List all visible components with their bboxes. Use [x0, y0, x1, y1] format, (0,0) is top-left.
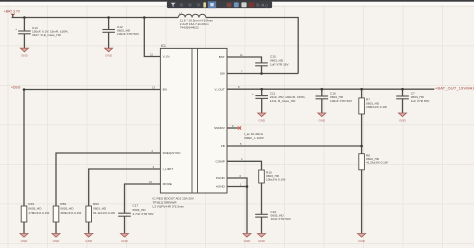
- capacitor C12: [102, 30, 115, 33]
- svg-text:41.2k±1% 0.1W: 41.2k±1% 0.1W: [366, 161, 388, 165]
- junction C12 tap: [107, 16, 110, 19]
- svg-text:100nF X7R 50V: 100nF X7R 50V: [330, 99, 353, 103]
- ground GND (C7): [399, 113, 407, 122]
- inductor L1: [178, 12, 206, 18]
- toolbar maroon icon: [227, 3, 232, 8]
- svg-text:178k±1% 0.1W: 178k±1% 0.1W: [28, 211, 49, 215]
- wire SW pin to corner: [227, 73, 298, 75]
- ground GND (C16): [318, 113, 326, 122]
- wire COMP net: [227, 161, 262, 170]
- toolbar light window icon: [241, 2, 246, 7]
- junction +DSG corner: [23, 88, 26, 91]
- capacitor C10: [255, 214, 268, 217]
- ground GND (R64): [85, 234, 93, 243]
- svg-text:SW: SW: [220, 72, 225, 76]
- svg-text:A: A: [261, 3, 264, 8]
- svg-text:+BAT_OUT_19VMAX: +BAT_OUT_19VMAX: [435, 86, 474, 90]
- resistor R8: [359, 154, 365, 170]
- label L1 values: [180, 19, 214, 30]
- resistor R10: [259, 170, 265, 183]
- IC pin numbers: [149, 53, 243, 187]
- label R7: [366, 98, 387, 109]
- resistor R7: [359, 98, 365, 114]
- ground GND (C10): [258, 234, 266, 243]
- label R10: [266, 170, 285, 181]
- svg-text:3917, D,E_Case_HD: 3917, D,E_Case_HD: [32, 33, 62, 37]
- wire +BAT top rail: [12, 14, 179, 18]
- junction V_IN tap: [143, 16, 146, 19]
- resistor R19: [21, 206, 27, 222]
- wire I_LIMIT net: [89, 169, 161, 206]
- svg-text:GND: GND: [258, 118, 266, 122]
- ground GND (C12): [105, 48, 113, 57]
- svg-text:GND: GND: [21, 239, 29, 243]
- capacitor C11 (polarized): [252, 92, 268, 98]
- svg-text:238k±1% 0.1W: 238k±1% 0.1W: [366, 105, 387, 109]
- capacitor C13 (polarized): [15, 27, 31, 34]
- label C16: [330, 92, 353, 103]
- label IC1 part text: [153, 196, 195, 208]
- label C10: [271, 210, 292, 221]
- wire R64 to GND: [88, 222, 90, 233]
- wire BST pin: [227, 57, 262, 63]
- toolbar dark red icon: [249, 3, 255, 8]
- wire R59 to GND: [55, 222, 57, 233]
- wire R7 top stub: [361, 89, 363, 98]
- svg-text:GND: GND: [121, 239, 129, 243]
- junction FB node: [360, 145, 363, 148]
- wire R10 to C10: [261, 183, 263, 214]
- ground GND (C11): [258, 113, 266, 122]
- svg-text:GND: GND: [399, 118, 407, 122]
- toolbar dim icon 1: [180, 3, 183, 6]
- power port +BAT 3.7V: [4, 10, 21, 16]
- svg-text:GND: GND: [244, 239, 252, 243]
- svg-text:GND: GND: [85, 239, 93, 243]
- svg-text:MODE: MODE: [163, 182, 172, 186]
- svg-text:10k±1% 0.1W: 10k±1% 0.1W: [266, 178, 285, 182]
- svg-text:PGND: PGND: [216, 176, 226, 180]
- svg-text:VREF_1 100V: VREF_1 100V: [244, 136, 265, 140]
- wire C10 to GND: [261, 217, 263, 233]
- svg-text:0603_HD: 0603_HD: [133, 208, 147, 212]
- junction C13 tap: [23, 16, 26, 19]
- wire C13 branch: [23, 18, 25, 32]
- wire C11 branch: [261, 89, 263, 95]
- wire C7 branch: [402, 89, 404, 96]
- svg-text:AGND: AGND: [216, 185, 226, 189]
- wire R8 to GND: [361, 170, 363, 234]
- wire PGND pin: [227, 178, 247, 187]
- annotation near SNDRV: [244, 132, 265, 140]
- wire R7 bottom to FB node: [361, 114, 363, 146]
- label R59: [60, 202, 81, 215]
- svg-text:GND: GND: [21, 54, 29, 58]
- toolbar yellow icon: [203, 2, 206, 7]
- label C13: [32, 26, 69, 37]
- top window edge line: [0, 0, 474, 2]
- wire C12 branch: [108, 18, 110, 30]
- svg-text:+BAT 3.7V: +BAT 3.7V: [4, 10, 21, 14]
- junction C7 tap: [401, 88, 404, 91]
- svg-text:GND: GND: [53, 239, 61, 243]
- junction BST/SW cap: [260, 72, 263, 75]
- wire C13 to GND: [23, 34, 25, 48]
- svg-text:51.1k±1% 0.1W: 51.1k±1% 0.1W: [93, 211, 115, 215]
- svg-text:1uF X7R 50V: 1uF X7R 50V: [411, 99, 431, 103]
- resistor R59: [53, 206, 59, 222]
- ground GND (R8): [358, 234, 366, 243]
- svg-text:SNDRV: SNDRV: [214, 126, 226, 130]
- svg-text:1411, B_Case_HD: 1411, B_Case_HD: [270, 99, 296, 103]
- label C7: [411, 92, 431, 103]
- wire V_IN drop: [144, 18, 160, 57]
- op-amp / IC U1 body: IC1 TPS61178: [160, 44, 227, 193]
- wire C11 to GND: [261, 98, 263, 112]
- wire AGND pin: [227, 186, 247, 188]
- wire FB net: [227, 145, 362, 147]
- svg-text:0603_HD: 0603_HD: [60, 207, 74, 211]
- svg-text:V_IN: V_IN: [163, 55, 170, 59]
- svg-text:R19: R19: [28, 202, 34, 206]
- svg-text:GND: GND: [318, 118, 326, 122]
- wire FREQ/SYNC net: [56, 153, 160, 206]
- svg-text:+DSG: +DSG: [11, 86, 21, 90]
- svg-text:4.7nF X7R 50V: 4.7nF X7R 50V: [133, 212, 155, 216]
- svg-text:R64: R64: [93, 202, 99, 206]
- ground GND (R59): [52, 234, 60, 243]
- label C15: [270, 55, 290, 67]
- svg-text:GND: GND: [258, 239, 266, 243]
- wire C7 to GND: [402, 99, 404, 113]
- toolbar filter icon: [171, 3, 176, 7]
- svg-text:1uF X7R 16V: 1uF X7R 16V: [270, 63, 290, 67]
- toolbar dim icon 3: [197, 3, 200, 6]
- svg-text:C17: C17: [133, 203, 139, 207]
- label C17: [133, 203, 155, 216]
- wire C15 bottom to SW: [261, 66, 263, 74]
- junction AGND node: [246, 185, 249, 188]
- wire C16 branch: [321, 89, 323, 96]
- junction C11 tap: [260, 88, 263, 91]
- wire C16 to GND: [321, 99, 323, 113]
- svg-text:0603_HD: 0603_HD: [93, 207, 107, 211]
- toolbar blue icon: [234, 2, 239, 7]
- wire C12 to GND: [108, 32, 110, 48]
- ground GND (C13): [20, 48, 28, 57]
- wire SW top segment (L1 to corner): [206, 18, 298, 74]
- toolbar dim circle icon: [256, 3, 260, 7]
- svg-text:EN: EN: [163, 88, 167, 92]
- capacitor C16: [316, 96, 329, 99]
- floating toolbar: [167, 1, 272, 8]
- label C12: [117, 25, 140, 36]
- svg-text:BST: BST: [219, 55, 225, 59]
- svg-text:74439344022: 74439344022: [180, 26, 199, 30]
- capacitor C17: [118, 213, 131, 216]
- wire C17 to GND: [124, 216, 126, 233]
- toolbar selected blue tool: [208, 1, 216, 8]
- wire SNDRV stub: [227, 127, 238, 129]
- wire V_OUT rail: [227, 88, 434, 90]
- svg-text:100nF X7R 50V: 100nF X7R 50V: [117, 32, 140, 36]
- svg-text:V_OUT: V_OUT: [214, 87, 224, 91]
- junction C16 tap: [321, 88, 324, 91]
- svg-text:COMP: COMP: [216, 160, 225, 164]
- svg-text:FREQ/SYNC: FREQ/SYNC: [163, 151, 182, 155]
- svg-text:L1: L1: [179, 12, 183, 16]
- no-connect X on SNDRV: [238, 126, 241, 129]
- wire PGND/AGND to GND: [246, 187, 248, 234]
- ground GND (C17): [121, 234, 129, 243]
- wire EN net from +DSG: [24, 89, 160, 91]
- capacitor C15: [255, 63, 268, 66]
- label R19: [28, 202, 49, 215]
- toolbar dim icon 2: [188, 3, 191, 6]
- wire MODE net: [125, 184, 161, 213]
- label R8: [366, 154, 388, 165]
- wire +DSG vertical to R19: [23, 90, 25, 207]
- svg-text:I_LIMIT: I_LIMIT: [162, 167, 173, 171]
- capacitor C7: [396, 96, 409, 99]
- svg-text:GND: GND: [358, 239, 366, 243]
- svg-text:R59: R59: [60, 202, 66, 206]
- svg-text:383k±1% 0.1W: 383k±1% 0.1W: [60, 211, 81, 215]
- wire R19 to GND: [23, 222, 25, 233]
- svg-text:FB: FB: [221, 144, 225, 148]
- ground GND (PGND/AGND): [243, 234, 251, 243]
- svg-text:L3 VQFN-HR 3*3.5mm: L3 VQFN-HR 3*3.5mm: [153, 204, 185, 208]
- wire R8 top stub: [361, 146, 363, 154]
- svg-text:10nF X7R 50V: 10nF X7R 50V: [271, 217, 292, 221]
- svg-text:IC1: IC1: [161, 44, 166, 48]
- label C11: [270, 92, 306, 103]
- IC pin names: [162, 55, 225, 189]
- svg-text:0603_HD: 0603_HD: [28, 207, 42, 211]
- label R64: [93, 202, 115, 215]
- white strip under top edge: [0, 1, 474, 5]
- svg-text:GND: GND: [105, 54, 113, 58]
- junction R7 tap: [360, 88, 363, 91]
- ground GND (R19): [20, 234, 28, 243]
- resistor R64: [86, 206, 92, 222]
